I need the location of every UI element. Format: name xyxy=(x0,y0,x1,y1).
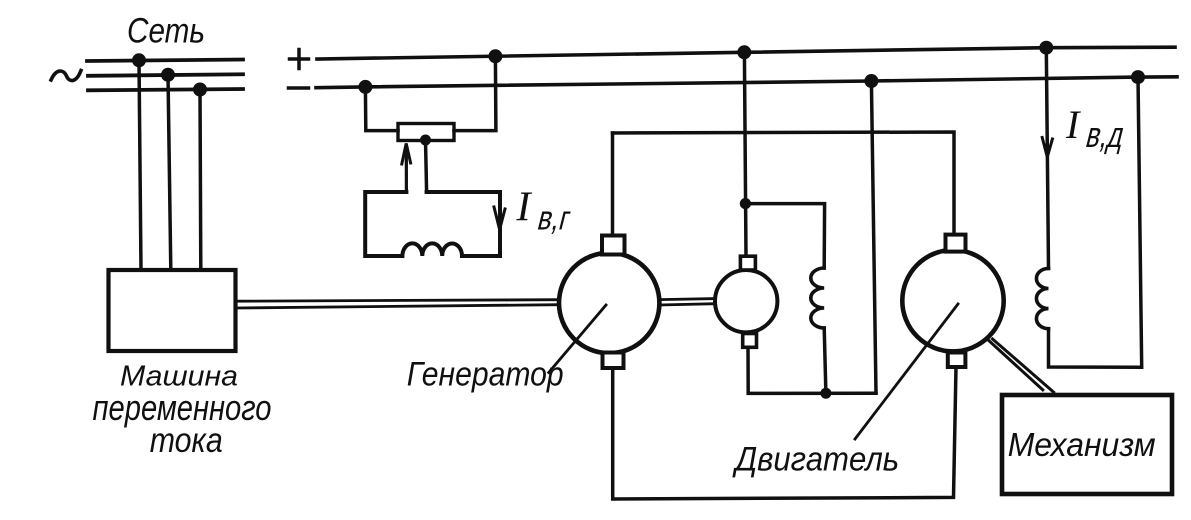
wire minus bus to armature circuit xyxy=(871,81,876,393)
svg-text:I: I xyxy=(516,185,533,231)
motor leader line xyxy=(855,304,958,439)
plus terminal symbol xyxy=(290,57,309,61)
junction dot minus bus / armature xyxy=(864,74,878,88)
down arrowhead current Ivd xyxy=(1042,138,1052,158)
svg-text:Двигатель: Двигатель xyxy=(732,441,900,479)
AC source tilde symbol xyxy=(51,71,81,81)
junction dot field bottom xyxy=(820,388,831,399)
wire field branch top xyxy=(745,204,824,268)
three-phase mains line L3 xyxy=(88,89,243,90)
wire field winding to rheostat with up arrow xyxy=(405,146,408,192)
junction dot plus bus / motor field xyxy=(1039,41,1053,55)
wire L2 to AC machine xyxy=(168,75,171,270)
shaft generator to exciter (double line) xyxy=(659,299,715,300)
mechanism box xyxy=(1002,395,1172,494)
junction dot on L3 xyxy=(193,83,207,97)
AC machine box xyxy=(109,270,236,351)
rheostat wiper dot xyxy=(420,135,431,146)
svg-text:Механизм: Механизм xyxy=(1008,426,1156,463)
shaft motor to mechanism (double line) xyxy=(993,339,1054,392)
generator bottom brush terminal xyxy=(603,353,624,369)
svg-text:в,д: в,д xyxy=(1082,115,1129,155)
wire minus bus to rheostat left xyxy=(365,87,398,131)
wire coil to bottom junction xyxy=(824,328,826,393)
junction dot on L1 xyxy=(132,53,146,67)
svg-text:в,г: в,г xyxy=(534,200,574,237)
wire generator armature top xyxy=(613,132,955,235)
wire wiper to field winding xyxy=(426,140,427,192)
generator top brush terminal xyxy=(602,236,625,255)
down arrowhead current Ivg xyxy=(494,207,505,230)
motor top brush terminal xyxy=(946,235,966,252)
junction dot on L2 xyxy=(161,68,175,82)
junction dot exciter / field branch xyxy=(740,198,751,209)
exciter circle B xyxy=(715,270,777,332)
svg-text:тока: тока xyxy=(150,421,223,460)
generator field coil (exciter field winding) xyxy=(811,268,824,328)
motor field wire from plus bus xyxy=(1046,48,1048,269)
motor field return wire xyxy=(1049,77,1142,367)
exciter top brush terminal xyxy=(740,256,755,270)
svg-text:Сеть: Сеть xyxy=(127,12,205,51)
wire L1 to AC machine xyxy=(139,60,141,270)
junction dot plus bus / exciter xyxy=(737,45,751,59)
svg-text:Генератор: Генератор xyxy=(407,356,564,394)
rheostat (potentiometer) R xyxy=(398,124,454,141)
junction dot minus bus / rheostat xyxy=(358,80,372,94)
junction dot minus bus / motor field return xyxy=(1131,70,1145,84)
DC minus bus xyxy=(316,77,1177,88)
DC plus bus xyxy=(317,47,1175,59)
generator leader line xyxy=(549,305,606,373)
up arrowhead at rheostat xyxy=(402,144,411,165)
wire plus bus to exciter xyxy=(744,52,746,256)
svg-text:I: I xyxy=(1065,102,1081,147)
motor field coil xyxy=(1036,268,1048,328)
exciter bottom brush terminal xyxy=(743,334,757,348)
wire plus bus to rheostat right xyxy=(454,56,496,130)
minus terminal symbol xyxy=(289,86,309,90)
three-phase mains line L1 xyxy=(87,60,243,62)
motor bottom brush terminal xyxy=(948,353,966,368)
wire generator bottom to motor bottom (armature loop) xyxy=(613,367,956,499)
wire L3 to AC machine xyxy=(198,90,202,271)
generator G circle xyxy=(559,253,659,353)
generator field winding loop OVG xyxy=(365,192,500,256)
junction dot plus bus / rheostat xyxy=(488,49,502,63)
three-phase mains line L2 xyxy=(88,74,243,76)
wire exciter bottom loop xyxy=(748,347,876,393)
shaft AC machine to generator (double line) xyxy=(236,300,560,302)
motor M circle xyxy=(902,250,1003,351)
